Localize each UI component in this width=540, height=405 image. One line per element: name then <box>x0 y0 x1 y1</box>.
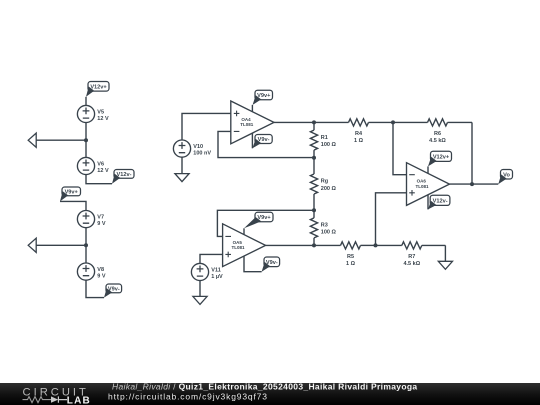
junction R1 top <box>312 120 316 124</box>
wire OA4 output to R4 <box>274 121 349 123</box>
node V9v+ (flag, left branch) <box>60 187 81 201</box>
svg-text:R7: R7 <box>408 254 415 260</box>
op-amp OA4 TL081 <box>231 101 274 148</box>
svg-text:R4: R4 <box>355 131 363 137</box>
svg-text:R3: R3 <box>321 223 328 229</box>
voltage source V6 12 V <box>77 157 109 174</box>
voltage source V8 9 V <box>77 263 105 280</box>
op-amp OA6 TL081 <box>407 163 450 210</box>
node V12v+ (flag) <box>86 82 109 97</box>
footer bar <box>0 383 540 405</box>
svg-text:V5: V5 <box>97 109 104 115</box>
voltage source V7 9 V <box>77 211 105 228</box>
voltage source V11 1 uV <box>191 263 223 280</box>
junction R5/R7/OA6+ <box>374 243 378 247</box>
node V9v- (flag below OA5) <box>262 257 280 272</box>
svg-text:4.5 kΩ: 4.5 kΩ <box>403 261 420 267</box>
CircuitLab logo squiggle (resistor + diode) <box>23 397 52 403</box>
svg-text:V12v+: V12v+ <box>433 154 450 160</box>
junction 12V midpoint <box>84 138 88 142</box>
junction R3 bottom <box>312 243 316 247</box>
junction R1/Rg <box>312 156 316 160</box>
node Vo (output flag) <box>498 170 512 185</box>
node V12v- (flag below OA6) <box>428 195 450 209</box>
wire V10 to OA4 + input <box>182 113 231 140</box>
ground (below V11) <box>193 296 207 304</box>
wire to ground left branch 2 <box>36 244 86 246</box>
svg-text:9 V: 9 V <box>97 221 106 227</box>
svg-text:Haikal_Rivaldi / Quiz1_Elektro: Haikal_Rivaldi / Quiz1_Elektronika_20524… <box>112 381 417 391</box>
svg-text:V9v-: V9v- <box>108 287 120 293</box>
svg-text:TL081: TL081 <box>415 184 429 189</box>
svg-text:1 µV: 1 µV <box>211 274 223 280</box>
svg-text:V9v+: V9v+ <box>257 93 271 99</box>
svg-text:4.5 kΩ: 4.5 kΩ <box>429 138 446 144</box>
wire V5 to junction <box>85 123 87 158</box>
svg-text:Vo: Vo <box>503 172 510 178</box>
junction R4/R6/OA6- <box>391 120 395 124</box>
wire OA5 output to R5 <box>266 244 341 246</box>
svg-text:TL081: TL081 <box>240 122 254 127</box>
svg-text:1 Ω: 1 Ω <box>346 261 356 267</box>
svg-text:V12v+: V12v+ <box>90 84 107 90</box>
svg-text:V9v-: V9v- <box>266 260 278 266</box>
svg-text:V8: V8 <box>97 267 104 273</box>
ground (right of R7) <box>438 261 452 269</box>
ground (below V10) <box>175 174 189 182</box>
svg-text:R5: R5 <box>347 254 354 260</box>
wire OA6 output to Vo <box>450 183 499 185</box>
wire to ground left branch 1 <box>36 139 86 141</box>
node V9v+ (flag above OA5) <box>244 212 273 228</box>
junction 9V midpoint <box>84 243 88 247</box>
svg-text:LAB: LAB <box>67 395 91 405</box>
wire V9v+ flag to V7 top <box>60 201 86 210</box>
resistor R6 4.5 kOhm (feedback) <box>393 119 472 144</box>
wire V12v+ flag to V5 top <box>85 97 87 106</box>
junction OA6 output/R6 <box>470 182 474 186</box>
wire R6 right down to OA6 output <box>471 122 473 184</box>
wire R7 to ground <box>444 245 446 261</box>
svg-text:1 Ω: 1 Ω <box>354 138 364 144</box>
ground (left, 9V branch) <box>28 238 36 252</box>
svg-text:R6: R6 <box>434 131 441 137</box>
wire V11 to OA5 + input <box>200 254 223 263</box>
svg-text:V9v-: V9v- <box>258 137 270 143</box>
svg-text:V9v+: V9v+ <box>65 190 79 196</box>
svg-text:200 Ω: 200 Ω <box>321 186 337 192</box>
resistor R7 4.5 kOhm <box>376 242 446 267</box>
svg-text:Rg: Rg <box>321 179 328 185</box>
svg-text:12 V: 12 V <box>97 116 109 122</box>
svg-text:OA4: OA4 <box>241 117 251 122</box>
resistor R5 1 Ohm <box>341 242 376 267</box>
svg-text:100 nV: 100 nV <box>193 151 211 157</box>
svg-text:9 V: 9 V <box>97 274 106 280</box>
voltage source V5 12 V <box>77 105 109 122</box>
wire V10 to ground <box>181 157 183 173</box>
resistor R1 100 Ohm <box>310 122 336 157</box>
wire V7 to junction <box>85 228 87 263</box>
junction Rg/R3 <box>312 208 316 212</box>
resistor Rg 200 Ohm <box>310 158 336 211</box>
node V9v- (flag below OA4) <box>252 135 272 149</box>
node V12v+ (flag above OA6) <box>428 151 452 166</box>
svg-text:V10: V10 <box>193 144 203 150</box>
svg-text:OA6: OA6 <box>417 179 427 184</box>
svg-text:R1: R1 <box>321 135 328 141</box>
wire OA5 inverting feedback <box>217 210 314 236</box>
wire V8 bottom to V9v- flag <box>86 280 104 297</box>
resistor R3 100 Ohm <box>310 210 336 245</box>
svg-text:V11: V11 <box>211 267 220 273</box>
svg-text:100 Ω: 100 Ω <box>321 142 337 148</box>
svg-text:V9v+: V9v+ <box>257 215 271 221</box>
voltage source V10 100 nV <box>173 140 211 157</box>
svg-text:OA5: OA5 <box>233 240 243 245</box>
svg-text:http://circuitlab.com/c9jv3kg9: http://circuitlab.com/c9jv3kg93qf73 <box>108 392 268 402</box>
resistor R4 1 Ohm <box>349 119 394 144</box>
wire junction down to OA6 inverting input <box>393 122 407 174</box>
node V12v- (flag) <box>112 170 134 184</box>
wire V11 to ground <box>199 281 201 297</box>
wire OA4 inverting feedback <box>218 131 314 157</box>
svg-text:V6: V6 <box>97 161 104 167</box>
ground (left, 12V branch) <box>28 133 36 147</box>
svg-text:100 Ω: 100 Ω <box>321 230 337 236</box>
svg-text:V7: V7 <box>97 215 104 221</box>
node V9v+ (flag above OA4) <box>253 90 273 105</box>
svg-text:V12v-: V12v- <box>117 172 132 178</box>
svg-text:V12v-: V12v- <box>433 198 448 204</box>
op-amp OA5 TL081 <box>223 224 266 272</box>
node V9v- (flag) <box>104 284 122 298</box>
svg-text:12 V: 12 V <box>97 168 109 174</box>
wire V6 bottom to V12v- flag <box>86 175 112 184</box>
svg-text:TL081: TL081 <box>231 245 245 250</box>
wire junction up to OA6 non-inverting input <box>376 193 407 246</box>
